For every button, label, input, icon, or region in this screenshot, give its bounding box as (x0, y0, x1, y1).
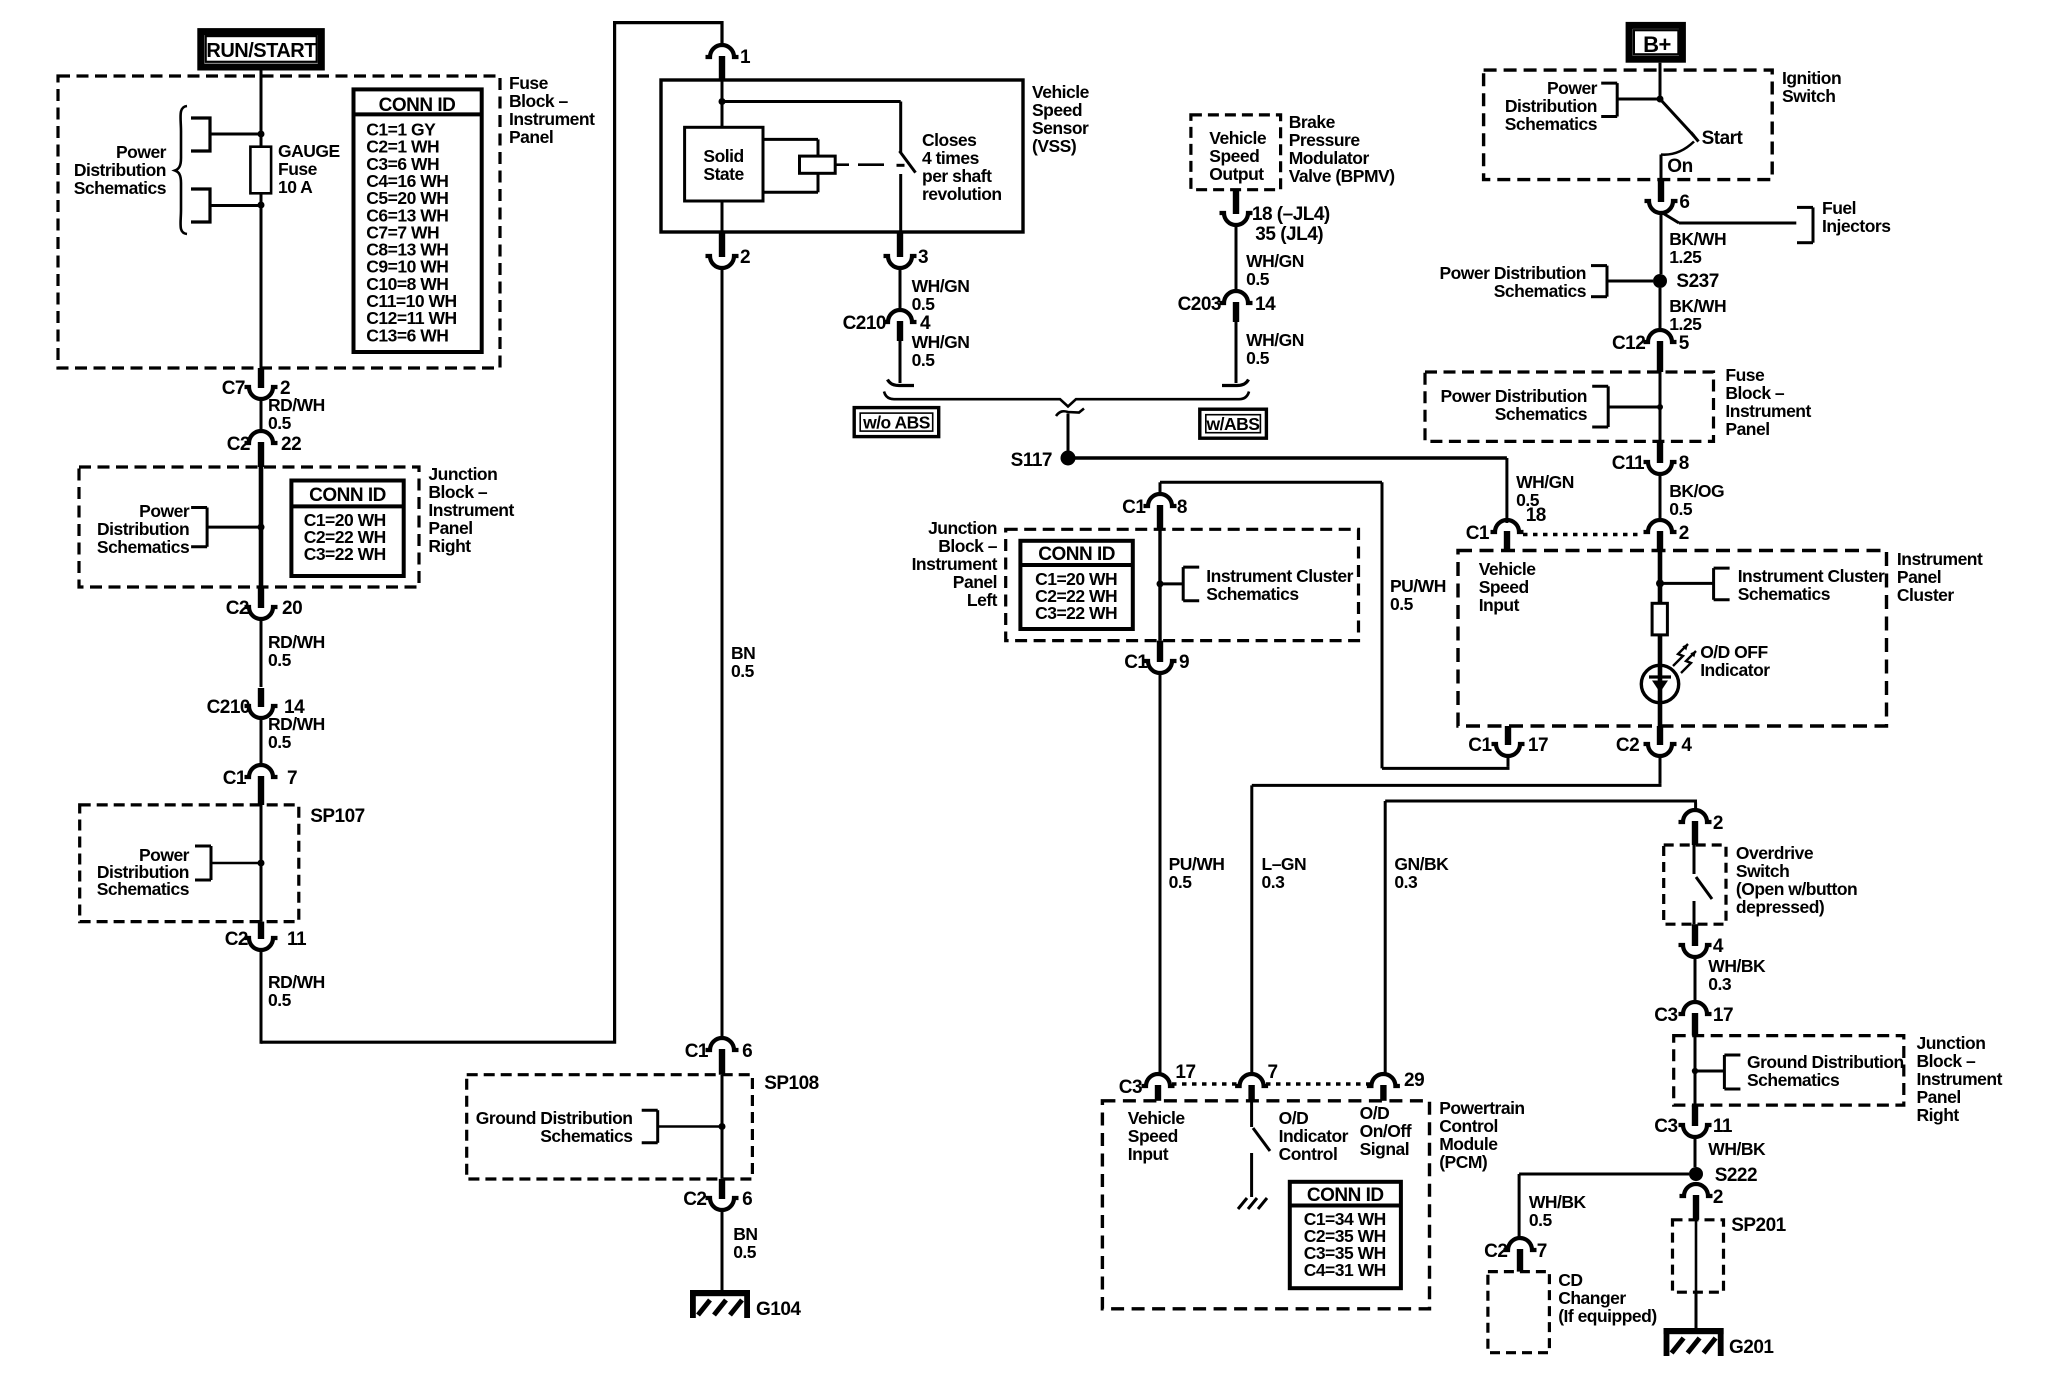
splice SP201 box (1673, 1215, 1787, 1292)
connector C203 pin 14 (1178, 291, 1276, 322)
svg-text:G201: G201 (1729, 1337, 1774, 1358)
svg-text:BN: BN (733, 1224, 757, 1244)
svg-text:Ignition: Ignition (1782, 68, 1841, 88)
svg-text:Panel: Panel (509, 127, 553, 147)
svg-text:20: 20 (282, 598, 302, 619)
label Start (1702, 128, 1744, 149)
svg-text:14: 14 (1255, 294, 1276, 315)
svg-text:RD/WH: RD/WH (268, 632, 325, 652)
splice SP108 box (467, 1073, 819, 1179)
connector C2 pin 7 (1484, 1238, 1547, 1272)
svg-text:RD/WH: RD/WH (268, 395, 325, 415)
svg-text:O/D: O/D (1360, 1103, 1390, 1123)
svg-text:(VSS): (VSS) (1032, 136, 1076, 156)
svg-text:Fuse: Fuse (509, 73, 549, 93)
svg-text:G104: G104 (756, 1299, 801, 1320)
wire C2-4 to PCM pin 7 (L-GN) (1252, 754, 1662, 1074)
ignition switch box (1484, 70, 1773, 180)
svg-text:17: 17 (1713, 1005, 1733, 1026)
svg-text:Solid: Solid (703, 146, 743, 166)
connector C2 pin 20 (226, 587, 302, 619)
wire WH/GN 0.5 (VSS) (900, 266, 969, 314)
svg-text:WH/GN: WH/GN (912, 276, 970, 296)
svg-text:Panel: Panel (1917, 1087, 1961, 1107)
svg-text:Distribution: Distribution (74, 160, 166, 180)
svg-text:0.5: 0.5 (268, 413, 292, 433)
connector C1 pin 18 (1466, 505, 1546, 551)
svg-text:Distribution: Distribution (97, 519, 189, 539)
svg-text:4: 4 (1681, 735, 1692, 756)
svg-text:L–GN: L–GN (1262, 854, 1307, 874)
svg-text:Instrument: Instrument (912, 554, 998, 574)
connector C12 pin 5 (1612, 330, 1690, 372)
svg-text:O/D: O/D (1279, 1108, 1309, 1128)
svg-text:C1: C1 (1124, 652, 1148, 673)
svg-text:C13=6 WH: C13=6 WH (366, 325, 448, 345)
connector C2 pin 4 (1616, 726, 1692, 756)
svg-text:0.5: 0.5 (912, 350, 936, 370)
svg-text:0.3: 0.3 (1708, 974, 1732, 994)
svg-text:C4=31 WH: C4=31 WH (1304, 1260, 1386, 1280)
CD changer box (1488, 1272, 1550, 1353)
svg-text:Sensor: Sensor (1032, 118, 1089, 138)
PCM internal ground switch (1252, 1101, 1270, 1197)
junction block IP left box (1006, 529, 1359, 640)
svg-text:Junction: Junction (1917, 1033, 1986, 1053)
svg-text:PU/WH: PU/WH (1390, 576, 1446, 596)
merge brace (884, 392, 1249, 407)
svg-text:4: 4 (1713, 936, 1724, 957)
label Vehicle Speed Input (cluster) (1479, 559, 1537, 615)
svg-text:On/Off: On/Off (1360, 1121, 1412, 1141)
svg-text:17: 17 (1528, 735, 1548, 756)
ground distribution bracket (junction lower) (1724, 1055, 1740, 1089)
wire end hook w/ABS (1222, 380, 1249, 386)
svg-text:(PCM): (PCM) (1439, 1152, 1487, 1172)
connector C210 pin 14 (207, 688, 305, 718)
label Ignition Switch (1782, 68, 1841, 106)
svg-text:B+: B+ (1643, 32, 1671, 57)
svg-text:Instrument: Instrument (509, 109, 595, 129)
wire BN 0.5 to G104 (722, 1208, 757, 1292)
label Closes 4 times per shaft revolution (922, 130, 1002, 204)
label power distribution schematics (SP107) (97, 845, 190, 899)
svg-text:Block –: Block – (428, 482, 488, 502)
svg-text:Schematics: Schematics (540, 1126, 633, 1146)
instrument cluster schematics bracket (cluster) (1714, 568, 1730, 600)
label O/D OFF Indicator (1700, 642, 1770, 680)
svg-text:On: On (1667, 156, 1692, 177)
svg-text:WH/GN: WH/GN (1246, 330, 1304, 350)
wire RD/WH 0.5 c (261, 714, 325, 765)
svg-text:0.5: 0.5 (1246, 269, 1270, 289)
label Instrument Panel Cluster (1897, 549, 1983, 605)
junction block IP right box (lower) (1674, 1036, 1904, 1106)
svg-text:Closes: Closes (922, 130, 977, 150)
svg-text:0.3: 0.3 (1262, 872, 1286, 892)
svg-text:Ground Distribution: Ground Distribution (476, 1108, 633, 1128)
svg-text:29: 29 (1404, 1070, 1424, 1091)
svg-text:Switch: Switch (1782, 86, 1835, 106)
svg-text:w/o ABS: w/o ABS (862, 413, 930, 433)
svg-text:6: 6 (1679, 192, 1689, 213)
svg-text:Instrument: Instrument (428, 500, 514, 520)
svg-text:6: 6 (742, 1041, 752, 1062)
CONN ID table junction right (291, 481, 403, 577)
svg-text:Brake: Brake (1289, 112, 1336, 132)
svg-text:RD/WH: RD/WH (268, 972, 325, 992)
connector VSS pin 3 (884, 233, 929, 268)
svg-text:Pressure: Pressure (1289, 130, 1361, 150)
connector ignition pin 6 (1645, 180, 1690, 213)
svg-text:0.5: 0.5 (1390, 594, 1414, 614)
VSS coil (763, 139, 849, 192)
svg-text:Valve (BPMV): Valve (BPMV) (1289, 166, 1395, 186)
label Instrument Cluster Schematics (cluster) (1738, 566, 1885, 604)
power distribution bracket (SP107) (195, 846, 265, 880)
wire solid state to pin2 (721, 201, 724, 232)
wire OD switch to PCM pin 29 (GN/BK) (1385, 801, 1697, 1074)
splice SP107 box (80, 805, 365, 922)
connector C1 pin 17 (1468, 726, 1548, 756)
svg-text:Cluster: Cluster (1897, 585, 1954, 605)
connector C1 pin 6 (685, 1038, 752, 1075)
wire SP107 internal (260, 805, 263, 922)
svg-text:Control: Control (1279, 1144, 1338, 1164)
label O/D Indicator Control (1279, 1108, 1349, 1164)
option box w/ABS (1200, 409, 1267, 438)
svg-text:C1: C1 (1468, 735, 1492, 756)
svg-text:WH/GN: WH/GN (912, 332, 970, 352)
svg-text:7: 7 (1268, 1062, 1278, 1083)
vehicle speed sensor VSS box (661, 80, 1023, 232)
svg-text:Left: Left (967, 590, 998, 610)
label Junction Block IP Right (428, 464, 514, 556)
svg-text:Block –: Block – (938, 536, 998, 556)
wire BK/WH 1.25 lower (1660, 288, 1726, 334)
VSS switch blade (897, 151, 916, 232)
svg-text:0.3: 0.3 (1394, 872, 1418, 892)
svg-text:SP108: SP108 (764, 1073, 819, 1094)
svg-text:1.25: 1.25 (1669, 247, 1702, 267)
CONN ID table PCM (1290, 1182, 1401, 1288)
svg-text:22: 22 (281, 434, 301, 455)
svg-text:Right: Right (428, 536, 471, 556)
label Powertrain Control Module (PCM) (1439, 1098, 1524, 1172)
svg-text:0.5: 0.5 (1529, 1210, 1553, 1230)
svg-text:C7: C7 (222, 378, 245, 399)
label power distribution schematics (ignition) (1505, 78, 1598, 134)
label Junction Block IP Right (lower) (1917, 1033, 2003, 1125)
svg-text:C2: C2 (1484, 1241, 1507, 1262)
svg-text:WH/GN: WH/GN (1246, 251, 1304, 271)
wire RD/WH 0.5 d (261, 948, 325, 1044)
svg-text:17: 17 (1175, 1062, 1195, 1083)
power label RUN/START (201, 32, 321, 67)
svg-text:Control: Control (1439, 1116, 1498, 1136)
svg-text:6: 6 (742, 1189, 752, 1210)
connector C1 pin 7 (223, 765, 297, 805)
svg-text:0.5: 0.5 (268, 650, 292, 670)
svg-text:0.5: 0.5 (731, 661, 755, 681)
svg-text:PU/WH: PU/WH (1169, 854, 1225, 874)
svg-text:4 times: 4 times (922, 148, 980, 168)
svg-text:Block –: Block – (1725, 383, 1785, 403)
svg-text:State: State (703, 164, 744, 184)
svg-text:GN/BK: GN/BK (1394, 854, 1449, 874)
svg-text:8: 8 (1679, 453, 1689, 474)
wire junction right lower internal (1692, 1036, 1725, 1106)
svg-text:C2: C2 (225, 929, 248, 950)
svg-text:Signal: Signal (1360, 1139, 1410, 1159)
dashed connector tie (PCM) (1172, 1082, 1370, 1086)
svg-text:Panel: Panel (428, 518, 472, 538)
svg-text:2: 2 (1679, 523, 1689, 544)
svg-text:C3=22 WH: C3=22 WH (1035, 603, 1117, 623)
svg-text:0.5: 0.5 (1516, 490, 1540, 510)
wire BK/WH 1.25 upper (1661, 211, 1726, 274)
label power distribution schematics (S237) (1439, 263, 1586, 301)
splice S222 (1689, 1165, 1757, 1186)
svg-text:CONN ID: CONN ID (309, 485, 386, 506)
power distribution bracket (ignition) (1601, 83, 1660, 116)
svg-text:C203: C203 (1178, 294, 1221, 315)
svg-text:Power Distribution: Power Distribution (1440, 386, 1587, 406)
label Fuse Block Instrument Panel (right) (1725, 365, 1811, 439)
wire RD/WH 0.5 b (261, 617, 325, 687)
power distribution bracket (fuse block right) (1592, 386, 1663, 427)
svg-text:Speed: Speed (1032, 100, 1082, 120)
svg-text:Instrument: Instrument (1725, 401, 1811, 421)
wire S117 to cluster C1-18 (1074, 458, 1507, 523)
svg-text:11: 11 (1713, 1116, 1733, 1137)
svg-text:Speed: Speed (1128, 1126, 1178, 1146)
connector C11 pin 8 (1612, 441, 1689, 474)
wire junction block right internal (259, 467, 264, 587)
svg-text:Schematics: Schematics (1206, 584, 1299, 604)
svg-text:Module: Module (1439, 1134, 1498, 1154)
label GAUGE Fuse 10 A (278, 141, 340, 197)
label Fuse Block Instrument Panel (509, 73, 595, 147)
svg-text:C210: C210 (207, 697, 250, 718)
label Overdrive Switch (1736, 843, 1857, 917)
svg-text:1: 1 (740, 47, 751, 68)
svg-text:Overdrive: Overdrive (1736, 843, 1814, 863)
label power distribution schematics (junction right) (97, 501, 190, 557)
svg-text:C2: C2 (227, 434, 250, 455)
svg-text:(If equipped): (If equipped) (1558, 1306, 1656, 1326)
svg-text:Vehicle: Vehicle (1032, 82, 1090, 102)
svg-text:C2: C2 (683, 1189, 706, 1210)
svg-text:Distribution: Distribution (1505, 96, 1597, 116)
label Instrument Cluster Schematics (left) (1206, 566, 1353, 604)
connector C210 pin 4 (843, 310, 931, 341)
svg-text:0.5: 0.5 (1246, 348, 1270, 368)
ground distribution bracket (SP108) (642, 1110, 726, 1143)
svg-text:0.5: 0.5 (733, 1242, 757, 1262)
resistor O/D (1652, 603, 1667, 635)
svg-text:per shaft: per shaft (922, 166, 992, 186)
connector C7 pin 2 (222, 368, 290, 399)
dashed connector tie (cluster) (1523, 533, 1642, 537)
wire end hook w/o ABS (888, 380, 915, 386)
vehicle speed output box (1191, 115, 1281, 190)
svg-text:Powertrain: Powertrain (1439, 1098, 1524, 1118)
svg-text:2: 2 (1713, 813, 1723, 834)
svg-text:0.5: 0.5 (912, 294, 936, 314)
powertrain control module box (1102, 1101, 1429, 1309)
connector C1 pin 9 (1124, 641, 1189, 673)
wire RUN/START to fuse (260, 68, 263, 147)
connector PCM C3 pin 17 (1119, 1062, 1196, 1101)
indicator LED O/D OFF (1641, 644, 1696, 703)
svg-text:Fuse: Fuse (278, 159, 318, 179)
node fuse bottom junction (258, 202, 265, 209)
wire SP201 internal (1695, 1220, 1698, 1292)
svg-text:RUN/START: RUN/START (206, 40, 316, 62)
svg-text:Power: Power (1547, 78, 1598, 98)
brace power distribution (175, 106, 187, 234)
svg-text:Schematics: Schematics (1747, 1070, 1840, 1090)
svg-text:1.25: 1.25 (1669, 314, 1702, 334)
svg-text:Speed: Speed (1479, 577, 1529, 597)
svg-text:Fuse: Fuse (1725, 365, 1765, 385)
instrument cluster schematics bracket (left) (1183, 567, 1199, 601)
wire WH/BK 0.3 (1695, 955, 1766, 1004)
svg-text:Panel: Panel (953, 572, 997, 592)
svg-text:WH/BK: WH/BK (1529, 1192, 1587, 1212)
label power distribution schematics (fuse block) (74, 142, 167, 198)
svg-text:Schematics: Schematics (97, 879, 190, 899)
svg-text:Speed: Speed (1209, 146, 1259, 166)
svg-text:Input: Input (1128, 1144, 1169, 1164)
label Ground Distribution Schematics (SP108) (476, 1108, 633, 1146)
connector PCM pin 7 (1235, 1062, 1277, 1101)
svg-text:Indicator: Indicator (1279, 1126, 1349, 1146)
svg-text:GAUGE: GAUGE (278, 141, 340, 161)
svg-text:O/D OFF: O/D OFF (1700, 642, 1768, 662)
connector C2 pin 6 (683, 1179, 752, 1210)
svg-text:Vehicle: Vehicle (1128, 1108, 1186, 1128)
label power distribution schematics (fuse block right) (1440, 386, 1587, 424)
connector BPMV pin 18/35 (1220, 190, 1330, 245)
svg-text:2: 2 (1713, 1187, 1723, 1208)
svg-text:CONN ID: CONN ID (379, 95, 456, 116)
label On (1667, 156, 1692, 177)
svg-text:Instrument: Instrument (1917, 1069, 2003, 1089)
svg-text:Input: Input (1479, 595, 1520, 615)
label CD Changer (If equipped) (1558, 1270, 1656, 1326)
fuse GAUGE 10A (250, 147, 271, 381)
svg-text:Instrument: Instrument (1897, 549, 1983, 569)
svg-text:Schematics: Schematics (74, 178, 167, 198)
ground G104 (690, 1290, 801, 1320)
svg-text:18 (–JL4): 18 (–JL4) (1252, 204, 1330, 225)
wire left column to VSS feed (261, 23, 722, 1043)
label Fuel Injectors (1822, 198, 1891, 236)
svg-text:depressed): depressed) (1736, 897, 1824, 917)
svg-text:Schematics: Schematics (1505, 114, 1598, 134)
svg-text:2: 2 (740, 247, 750, 268)
svg-text:Power: Power (116, 142, 167, 162)
svg-text:CONN ID: CONN ID (1307, 1185, 1384, 1206)
node fuse top junction (258, 131, 265, 138)
svg-text:Schematics: Schematics (1494, 281, 1587, 301)
svg-text:7: 7 (1537, 1241, 1547, 1262)
svg-text:Right: Right (1917, 1105, 1960, 1125)
junction block IP right box (79, 467, 419, 587)
fuse block instrument panel box (58, 76, 500, 368)
wire WH/GN 0.5 (BPMV lower) (1236, 322, 1304, 383)
svg-text:9: 9 (1179, 652, 1189, 673)
svg-text:CD: CD (1558, 1270, 1582, 1290)
svg-text:Vehicle: Vehicle (1479, 559, 1537, 579)
svg-text:C1: C1 (1466, 523, 1490, 544)
connector VSS pin 1 (706, 45, 752, 80)
label Vehicle Speed Input (PCM) (1128, 1108, 1186, 1164)
svg-text:Block –: Block – (1917, 1051, 1977, 1071)
svg-text:Schematics: Schematics (1495, 404, 1588, 424)
splice S117 (1011, 450, 1076, 471)
label Brake Pressure Modulator Valve (BPMV) (1289, 112, 1395, 186)
wire B+ to ignition (1657, 63, 1664, 103)
CONN ID table fuse block (354, 89, 482, 352)
svg-text:Injectors: Injectors (1822, 216, 1891, 236)
svg-text:Instrument Cluster: Instrument Cluster (1738, 566, 1885, 586)
connector C2 pin 22 (227, 431, 301, 467)
wire SP201 to G201 (1695, 1292, 1698, 1330)
svg-text:Indicator: Indicator (1700, 660, 1770, 680)
svg-text:C3: C3 (1654, 1005, 1677, 1026)
svg-text:Ground Distribution: Ground Distribution (1747, 1052, 1904, 1072)
svg-text:Panel: Panel (1897, 567, 1941, 587)
svg-text:Power Distribution: Power Distribution (1439, 263, 1586, 283)
svg-text:BK/OG: BK/OG (1669, 481, 1724, 501)
svg-text:Fuel: Fuel (1822, 198, 1856, 218)
svg-text:C210: C210 (843, 313, 886, 334)
label Vehicle Speed Sensor (VSS) (1032, 82, 1090, 156)
svg-text:C11: C11 (1612, 453, 1645, 474)
PCM internal ground symbol (1238, 1198, 1267, 1209)
wire WH/GN 0.5 (VSS lower) (900, 332, 969, 383)
svg-text:Panel: Panel (1725, 419, 1769, 439)
wire cluster internal upper (1656, 551, 1714, 604)
connector OD pin 4 (1679, 924, 1724, 957)
svg-text:C2: C2 (226, 598, 249, 619)
wire BN 0.5 (722, 266, 755, 1040)
overdrive switch blade (1694, 845, 1712, 924)
wire LED to C2-4 (1658, 703, 1663, 726)
connector S222 pin 2 (1680, 1184, 1723, 1220)
svg-text:7: 7 (287, 768, 297, 789)
svg-text:C1: C1 (1122, 497, 1146, 518)
svg-text:0.5: 0.5 (1669, 499, 1693, 519)
svg-text:C3: C3 (1119, 1077, 1142, 1098)
wire junction left internal (1157, 529, 1184, 640)
svg-text:BK/WH: BK/WH (1669, 229, 1726, 249)
wire PU/WH 0.5 to PCM (1160, 671, 1224, 1074)
svg-text:3: 3 (918, 247, 928, 268)
overdrive switch box (1664, 845, 1726, 924)
svg-text:SP201: SP201 (1731, 1215, 1786, 1236)
svg-text:Junction: Junction (428, 464, 497, 484)
svg-text:WH/BK: WH/BK (1708, 1139, 1766, 1159)
solid state box (685, 127, 763, 201)
svg-text:Schematics: Schematics (97, 537, 190, 557)
svg-text:S237: S237 (1676, 271, 1718, 292)
svg-text:Start: Start (1702, 128, 1744, 149)
fuel injectors bracket (1797, 207, 1813, 242)
